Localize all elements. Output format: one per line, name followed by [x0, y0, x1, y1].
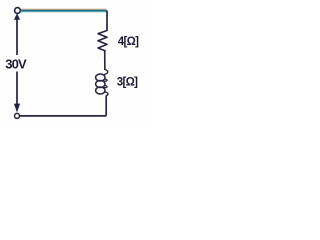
coil link 1-2 — [104, 79, 107, 81]
svg-text:30V: 30V — [5, 56, 27, 71]
wire right lower — [105, 96, 107, 116]
wire top light fringe — [21, 11, 106, 13]
terminal node (bottom-left) — [15, 113, 20, 118]
voltage arrow line upper — [16, 19, 18, 55]
svg-text:4[Ω]: 4[Ω] — [118, 36, 139, 48]
coil exit curve — [105, 92, 108, 96]
voltage arrow line lower — [16, 72, 18, 105]
wire right upper — [106, 11, 108, 31]
terminal node (top-left) — [15, 8, 21, 14]
wire right middle (between resistor and coil) — [104, 52, 106, 70]
wire top warm fringe — [21, 8, 106, 10]
voltage arrowhead up — [14, 13, 20, 19]
wire top (teal) — [21, 10, 107, 12]
coil loop 3 — [96, 87, 105, 94]
svg-text:3[Ω]: 3[Ω] — [117, 76, 138, 88]
resistor R1 4ohm zigzag — [98, 31, 107, 53]
coil loop 2 — [96, 81, 105, 88]
wire bottom — [20, 115, 107, 117]
coil loop 1 — [96, 74, 105, 81]
voltage arrowhead down — [14, 104, 20, 113]
coil L1 3ohm : entry curve — [104, 69, 108, 74]
coil link 2-3 — [104, 85, 107, 87]
